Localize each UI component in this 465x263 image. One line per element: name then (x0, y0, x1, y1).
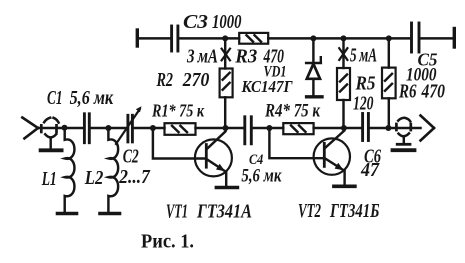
resistor R1 (165, 123, 196, 135)
node L1 tap (62, 125, 68, 131)
wire R5 to collector node (342, 100, 344, 128)
current break X 3 mA (222, 49, 230, 61)
ground L2 (100, 212, 120, 216)
svg-text:2...7: 2...7 (118, 167, 151, 188)
wire VT2 base tap (269, 128, 323, 158)
svg-text:470: 470 (421, 81, 446, 102)
resistor R4 (283, 123, 313, 134)
svg-text:L2: L2 (84, 167, 103, 189)
svg-text:3 мА: 3 мА (186, 46, 218, 67)
ground connector X2 (393, 148, 415, 152)
capacitor C3 (172, 26, 178, 51)
svg-text:R5: R5 (355, 73, 376, 94)
wire R2 branch upper (224, 38, 226, 68)
power terminal left (136, 30, 139, 46)
wire top rail left (137, 37, 170, 39)
power terminal right (453, 29, 456, 48)
connector X1 socket (41, 118, 58, 149)
svg-text:R3: R3 (234, 46, 257, 67)
wire main input (38, 127, 83, 129)
resistor R5 (337, 68, 350, 100)
capacitor C1 (84, 114, 89, 143)
transistor VT2 (314, 128, 350, 185)
output arrow (421, 116, 435, 141)
node VT2 base (266, 125, 272, 131)
ground VD1 (307, 95, 322, 98)
wire top rail R3 to C5 (268, 37, 410, 39)
wire R4 to C6 (314, 127, 362, 129)
wire R6 to output node (388, 98, 390, 128)
node VT1 collector (223, 125, 229, 131)
capacitor C5 (412, 23, 420, 52)
current break X 5 mA (339, 48, 347, 60)
wire top rail right (420, 37, 453, 39)
svg-text:L1: L1 (41, 169, 57, 190)
node VT1 base (150, 125, 156, 131)
svg-text:120: 120 (353, 93, 374, 114)
resistor R6 (382, 38, 396, 98)
ground VT2 emitter (334, 185, 355, 189)
svg-text:47: 47 (360, 160, 380, 181)
svg-text:R6: R6 (398, 81, 416, 102)
svg-text:5,6 мк: 5,6 мк (241, 166, 281, 186)
svg-text:VT2: VT2 (298, 200, 321, 222)
svg-text:R4* 75 к: R4* 75 к (264, 101, 321, 122)
inductor L1 (65, 128, 75, 211)
transistor VT1 (195, 128, 232, 186)
wire C4 to R4 (253, 127, 284, 129)
svg-text:ГТ341Б: ГТ341Б (329, 200, 379, 222)
svg-text:R2: R2 (156, 69, 173, 91)
svg-text:1000: 1000 (212, 12, 242, 33)
node VT2 collector (341, 125, 347, 131)
capacitor C6 (363, 114, 369, 141)
node top rail / R6 (386, 35, 392, 41)
wire top rail C3 to R3 (179, 37, 239, 39)
svg-text:VT1: VT1 (166, 201, 188, 223)
ground L1 (58, 212, 77, 216)
resistor R3 (239, 33, 268, 44)
connector X2 output (396, 118, 410, 144)
capacitor C4 (245, 117, 252, 144)
svg-text:5,6 мк: 5,6 мк (70, 88, 114, 109)
svg-text:ГТ341А: ГТ341А (196, 201, 252, 223)
input arrow (22, 118, 38, 139)
svg-text:R1* 75 к: R1* 75 к (151, 101, 204, 121)
wire VT1 base tap (153, 128, 205, 159)
node top rail / R2 (222, 35, 228, 41)
node top rail / VD1 (310, 35, 316, 41)
svg-text:270: 270 (182, 69, 209, 91)
svg-text:С3: С3 (183, 12, 208, 33)
svg-text:5 мА: 5 мА (350, 44, 377, 66)
zener diode VD1 (306, 38, 321, 95)
node output / R6 (385, 125, 391, 131)
wire R5 branch upper (342, 38, 344, 68)
node top rail / R5 (341, 35, 347, 41)
wire R2 to collector node (224, 97, 226, 128)
ground VT1 emitter (216, 186, 237, 190)
wire R1 to C4 (196, 127, 244, 129)
inductor L2 (108, 128, 118, 211)
resistor R2 (220, 69, 233, 98)
wire C6 to output (370, 127, 421, 129)
wire C1 to C2 (91, 127, 127, 129)
svg-text:С2: С2 (123, 146, 139, 168)
svg-text:КС147Г: КС147Г (241, 77, 294, 96)
svg-text:Рис. 1.: Рис. 1. (141, 231, 194, 252)
trimmer capacitor C2 (116, 106, 142, 144)
wire C2 to R1 (134, 127, 165, 129)
node L2 tap (105, 125, 111, 131)
svg-text:С1: С1 (47, 88, 63, 109)
ground connector X1 (41, 148, 62, 152)
